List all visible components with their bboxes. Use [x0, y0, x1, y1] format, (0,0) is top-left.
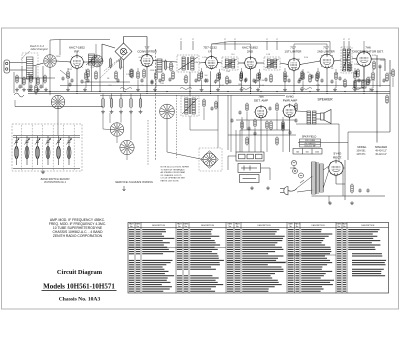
component value marks	[90, 54, 376, 87]
resistor R20	[357, 69, 359, 79]
svg-text:DESCRIPTION: DESCRIPTION	[152, 225, 166, 227]
wire IF can lead	[224, 41, 226, 50]
svg-text:49-424 12": 49-424 12"	[375, 153, 387, 156]
wire	[248, 120, 250, 152]
svg-text:No.: No.	[343, 226, 346, 228]
wire	[347, 132, 349, 160]
capacitor stage bypass2	[297, 79, 300, 83]
wire cathode drop	[326, 68, 328, 92]
wire PS bottom rail	[312, 195, 386, 197]
parts list column rules	[135, 222, 347, 293]
wire switch to trimmer bus	[57, 109, 59, 136]
capacitor stage bypass2	[150, 79, 153, 83]
wire	[302, 81, 304, 88]
svg-text:10H-571: 10H-571	[356, 153, 366, 156]
wire	[261, 167, 271, 169]
capacitor C17	[150, 80, 153, 84]
wire	[241, 80, 243, 88]
parts list table border	[128, 222, 389, 293]
resistor R7	[172, 71, 174, 81]
wire	[35, 79, 37, 86]
resistor R1	[35, 85, 37, 95]
resistor R6	[162, 73, 164, 83]
trimmer-coil unit L7 coil	[67, 142, 71, 165]
heater twisted pair	[120, 88, 132, 90]
svg-text:1.5M: 1.5M	[260, 80, 264, 82]
dashed box around S1F	[199, 148, 222, 171]
wire V2 top	[146, 53, 148, 55]
wire disc output	[363, 66, 365, 80]
wire AVC bus	[28, 93, 390, 95]
wire	[101, 44, 103, 62]
wire	[120, 113, 122, 123]
wire	[354, 68, 356, 71]
ground	[333, 88, 337, 92]
svg-text:10M: 10M	[226, 71, 230, 73]
capacitor antenna section	[18, 84, 21, 88]
wire osc ground run	[85, 81, 130, 83]
wire T3 to V4	[238, 62, 245, 64]
capacitor C12	[354, 70, 357, 74]
wire	[379, 66, 381, 87]
wire antenna lead	[10, 62, 27, 64]
wire to S1F	[167, 152, 203, 160]
resistor antenna section	[16, 75, 18, 84]
svg-text:SPKR FIELD: SPKR FIELD	[302, 136, 317, 139]
band switch wafer S1A	[44, 55, 57, 68]
svg-text:.05: .05	[307, 72, 310, 74]
wire	[241, 117, 243, 152]
svg-text:2.2M: 2.2M	[354, 64, 358, 66]
svg-text:Chassis No. 10A3: Chassis No. 10A3	[59, 296, 101, 302]
capacitor C25	[253, 131, 256, 135]
capacitor stage bypass2	[367, 79, 370, 83]
wire IF can lead	[348, 41, 350, 50]
capacitor C22	[230, 118, 233, 122]
wire trimmer bank bottom bus	[13, 168, 80, 170]
wire	[102, 113, 104, 129]
band switch wafer S1D	[120, 140, 134, 154]
wire B+ bus	[28, 91, 390, 93]
capacitor stage bypass	[204, 78, 207, 82]
wire	[103, 128, 110, 131]
resistor audio network	[282, 121, 284, 130]
wire	[235, 130, 237, 152]
capacitor C8	[244, 77, 247, 81]
wire	[372, 81, 374, 88]
pilot lamp	[291, 160, 296, 165]
resistor R57	[170, 62, 172, 72]
trimmer-coil unit L5 coil	[46, 142, 50, 165]
ground stage	[353, 88, 357, 92]
svg-text:No.: No.	[289, 226, 292, 228]
wire S1A up	[49, 40, 51, 55]
wire V8 plate drop	[260, 118, 262, 152]
tiny pin labels	[180, 39, 350, 41]
svg-text:R-14: R-14	[304, 57, 308, 59]
filter box	[240, 175, 260, 183]
wire voice coil return	[316, 118, 321, 120]
RF coil L2	[86, 54, 97, 65]
svg-text:R-4: R-4	[166, 67, 169, 69]
title underline	[42, 290, 117, 292]
svg-text:DESCRIPTION: DESCRIPTION	[361, 225, 375, 227]
resistor antenna section	[23, 77, 25, 86]
svg-text:300: 300	[296, 151, 299, 153]
wire	[124, 36, 148, 38]
trimmer-coil unit L6 coil	[57, 142, 61, 165]
capacitor stage bypass	[140, 78, 143, 82]
wire	[67, 68, 69, 71]
capacitor C18	[61, 76, 64, 80]
capacitor C15	[252, 78, 255, 82]
resistor R54	[131, 69, 133, 79]
resistor bleeder R40	[351, 184, 353, 194]
svg-text:220M: 220M	[56, 56, 61, 58]
heater twisted pair	[240, 88, 252, 90]
resistor R50	[203, 99, 205, 108]
trimmer-coil unit L4 coil	[36, 142, 40, 165]
wire	[120, 94, 122, 100]
wire cathode drop	[293, 70, 295, 91]
svg-text:17: 17	[234, 39, 236, 41]
wire lamp	[293, 166, 295, 169]
band switch wafer S1B	[51, 95, 65, 109]
wire plate load	[102, 44, 115, 48]
wire V5 to V6	[300, 61, 320, 65]
svg-text:label changed: label changed	[31, 47, 48, 51]
ground stage	[283, 88, 287, 92]
resistor stage screen	[218, 72, 220, 81]
tube V6 7C7 2nd limiter	[319, 53, 335, 69]
wire	[130, 94, 132, 100]
resistor R23	[246, 137, 248, 146]
trimmer-coil unit L4	[35, 136, 40, 145]
svg-text:17: 17	[180, 39, 182, 41]
wire	[335, 81, 337, 88]
trimmer-coil unit L5	[45, 136, 50, 145]
wire	[392, 78, 394, 87]
tube V8 7B6 det amp	[254, 105, 268, 119]
resistor stage screen	[335, 72, 337, 81]
capacitor stage bypass2	[214, 79, 217, 83]
svg-text:470M: 470M	[150, 70, 155, 72]
wire cathode drop	[146, 67, 148, 92]
wire	[140, 94, 142, 100]
wire V3 plate up	[211, 44, 213, 57]
wire cathode drop	[76, 68, 78, 91]
wire	[14, 100, 16, 107]
wire switch S1A to S1B	[49, 67, 51, 95]
svg-text:No.: No.	[229, 226, 232, 228]
svg-text:470M: 470M	[380, 60, 385, 62]
ground under R30	[101, 110, 105, 114]
wire HV to rectifier	[323, 166, 329, 170]
heater twisted pair	[352, 88, 364, 90]
speaker SP1	[321, 110, 332, 124]
wire	[201, 68, 203, 71]
capacitor C27	[294, 118, 297, 122]
wire	[335, 69, 337, 72]
resistor stage bias	[284, 71, 286, 80]
wire	[259, 81, 261, 88]
tube V7 7A6 discriminator	[356, 51, 373, 68]
wire IF can lead	[266, 41, 268, 50]
svg-text:MODEL: MODEL	[357, 145, 367, 149]
capacitor C61	[288, 130, 291, 134]
resistor R12	[240, 73, 242, 83]
wire to band switch	[33, 63, 44, 66]
wire resistor row to S1C	[109, 113, 111, 123]
wire limiter plate run	[294, 43, 327, 45]
ground antenna section	[15, 88, 19, 92]
oscillator coil L3	[157, 59, 162, 72]
wire IF plate run	[212, 43, 251, 45]
resistor stage screen	[155, 72, 157, 81]
electrolytic capacitor C30	[293, 169, 298, 174]
resistor R16	[301, 71, 303, 81]
svg-text:17: 17	[276, 39, 278, 41]
resistor R2	[87, 69, 89, 79]
wire V1 grid cap	[76, 51, 78, 56]
wire	[219, 69, 221, 72]
arrow pointer	[123, 186, 126, 191]
capacitor filter C40	[358, 188, 361, 192]
wire	[57, 94, 59, 96]
capacitor C5	[168, 77, 171, 81]
resistor R5	[130, 69, 132, 79]
wire	[155, 81, 157, 88]
svg-text:33M: 33M	[170, 66, 174, 68]
svg-text:.005: .005	[250, 67, 254, 69]
wire antenna section run	[15, 77, 55, 79]
wire down to S1F area	[227, 95, 229, 150]
dashed shaft line	[155, 49, 157, 160]
resistor R34	[139, 98, 141, 109]
line switch	[300, 180, 304, 183]
wire	[219, 81, 221, 88]
resistor R22	[276, 137, 278, 146]
resistor R8	[185, 75, 187, 85]
resistor stage bias	[137, 71, 139, 80]
svg-text:NOTE: ALL LUG NOS. REFER: NOTE: ALL LUG NOS. REFER	[161, 166, 190, 169]
svg-text:DESCRIPTION: DESCRIPTION	[258, 225, 272, 227]
capacitor C24b	[268, 106, 271, 110]
svg-text:R-19: R-19	[372, 55, 376, 57]
wire line cord	[297, 176, 313, 188]
wire	[276, 112, 278, 130]
resistor R9	[198, 73, 200, 83]
svg-text:.01: .01	[317, 85, 320, 87]
wire	[137, 68, 139, 71]
ground stage	[316, 88, 320, 92]
resistor R15	[284, 74, 286, 84]
capacitor C23	[238, 110, 241, 114]
wire HV to rectifier 2	[323, 170, 329, 188]
capacitor C6	[194, 78, 197, 82]
svg-text:DESCRIPTION: DESCRIPTION	[201, 225, 215, 227]
wire diag	[60, 70, 70, 78]
svg-text:.1: .1	[215, 58, 217, 60]
svg-text:No.: No.	[236, 226, 239, 228]
dashed link gang to coils	[104, 52, 128, 71]
resistor R11	[226, 76, 228, 86]
resistor R23	[386, 95, 388, 105]
wire speaker return	[296, 123, 339, 125]
ground under R31	[110, 110, 114, 114]
wire heater bus	[100, 95, 285, 97]
svg-text:47M: 47M	[296, 59, 300, 61]
resistor stage bias	[200, 71, 202, 80]
wire	[126, 155, 128, 160]
resistor R17	[309, 74, 311, 84]
svg-text:4.7M: 4.7M	[272, 63, 276, 65]
wire	[254, 128, 256, 152]
band switch wafer S1C	[110, 123, 124, 137]
wire V4 plate to T4	[256, 62, 264, 64]
discriminator transformer T6	[341, 47, 352, 73]
svg-text:R-9: R-9	[231, 54, 234, 56]
capacitor antenna section	[39, 84, 42, 88]
resistor R24	[246, 103, 248, 112]
wire	[348, 131, 390, 133]
IF transformer T4	[264, 57, 280, 70]
ground under R32	[119, 110, 123, 114]
wire IF can lead	[180, 41, 182, 50]
capacitor C9	[264, 77, 267, 81]
IF transformer T2	[177, 55, 199, 72]
svg-text:Circuit Diagram: Circuit Diagram	[57, 269, 103, 276]
svg-text:PWR AMP: PWR AMP	[283, 98, 298, 102]
wire IF can lead	[343, 41, 345, 50]
resistor audio network	[266, 121, 268, 130]
capacitor stage bypass	[357, 78, 360, 82]
wire	[246, 112, 248, 130]
wire	[57, 107, 59, 109]
wire V3 plate to T3	[218, 62, 223, 65]
resistor disc load R25	[354, 80, 356, 89]
wire IF can lead	[234, 41, 236, 50]
wire	[372, 69, 374, 72]
wire	[317, 80, 319, 88]
wire audio coupling	[240, 129, 290, 131]
resistor R52	[109, 58, 111, 69]
ground	[44, 88, 48, 92]
wire	[384, 59, 386, 71]
FM loop antenna	[14, 93, 24, 97]
wire	[67, 80, 69, 88]
capacitor C60	[247, 126, 250, 130]
svg-text:SPEAKER: SPEAKER	[375, 145, 387, 149]
resistor R61	[282, 123, 284, 132]
junction dots	[49, 91, 377, 94]
svg-text:500: 500	[205, 75, 208, 77]
band switch wafer S1G oscillator	[91, 55, 103, 67]
tube V2 7J7 converter	[140, 53, 155, 68]
wire	[85, 69, 87, 72]
wire audio bus	[228, 134, 296, 136]
wire FM IF down	[189, 116, 191, 130]
wire V7 plate	[371, 58, 385, 60]
resistor R55	[143, 69, 145, 79]
svg-text:1000-1100 TAP: 1000-1100 TAP	[304, 145, 316, 148]
svg-text:68M: 68M	[238, 84, 242, 86]
wire	[85, 81, 87, 88]
wire line cord 2	[297, 190, 313, 192]
wire switch to V1 grid	[56, 61, 70, 62]
wire	[59, 40, 61, 56]
svg-text:17: 17	[192, 39, 194, 41]
svg-text:RECT.: RECT.	[333, 155, 342, 159]
wire	[35, 93, 37, 96]
resistor R30	[102, 98, 104, 109]
ground antenna section	[29, 88, 33, 92]
wire	[338, 124, 340, 161]
capacitor C2	[86, 78, 89, 82]
svg-text:1ST LIMITER: 1ST LIMITER	[285, 49, 302, 53]
ground antenna section	[36, 88, 40, 92]
capacitor filter C41	[366, 188, 369, 192]
wire V1 plate	[83, 61, 102, 63]
resistor R60	[241, 121, 243, 130]
wire filter rail	[344, 160, 346, 200]
svg-text:17: 17	[266, 39, 268, 41]
parts list header rule	[128, 227, 389, 229]
capacitor stage bypass2	[80, 79, 83, 83]
heater twisted pair	[300, 88, 312, 90]
wire antenna ground leg	[13, 72, 15, 93]
svg-text:2ND LIMITER: 2ND LIMITER	[317, 49, 334, 53]
resistor R33	[130, 98, 132, 109]
tube V4 6AC7-1852 2nd IF	[243, 56, 257, 70]
parts list header text	[129, 223, 375, 228]
capacitor C26	[281, 124, 284, 128]
resistor R4	[115, 71, 117, 81]
wire	[50, 39, 60, 42]
ground	[153, 88, 157, 92]
wire AVC top run	[230, 41, 330, 43]
wire	[155, 69, 157, 72]
wire	[354, 80, 356, 88]
wire	[282, 117, 284, 152]
wire	[217, 95, 219, 130]
capacitor stage bypass	[244, 78, 247, 82]
svg-text:1100: 1100	[315, 151, 319, 153]
IF transformer T3	[222, 57, 238, 70]
dashed enclosure trimmer bank	[12, 124, 82, 171]
wire IF can lead	[276, 41, 278, 50]
capacitor C11	[310, 74, 313, 78]
wire V9 plate to T7	[296, 110, 307, 113]
svg-text:C-18: C-18	[266, 54, 270, 56]
tube V5 7C7 1st limiter	[287, 57, 301, 71]
capacitor stage bypass	[70, 78, 73, 82]
wire	[355, 79, 375, 81]
ground stage	[136, 88, 140, 92]
resistor antenna section	[30, 75, 32, 84]
output transformer T7	[307, 111, 316, 124]
resistor antenna section	[37, 77, 39, 86]
parts list section rules	[128, 248, 336, 263]
wire	[203, 108, 205, 120]
svg-text:.05: .05	[83, 82, 86, 84]
wire voice coil	[316, 113, 321, 115]
electrolytic capacitor C31	[299, 173, 304, 178]
trimmer-coil unit L3 coil	[25, 142, 29, 165]
svg-text:17: 17	[348, 39, 350, 41]
dashed box around antenna coil	[22, 53, 38, 79]
trimmer-coil unit L3	[24, 136, 29, 145]
